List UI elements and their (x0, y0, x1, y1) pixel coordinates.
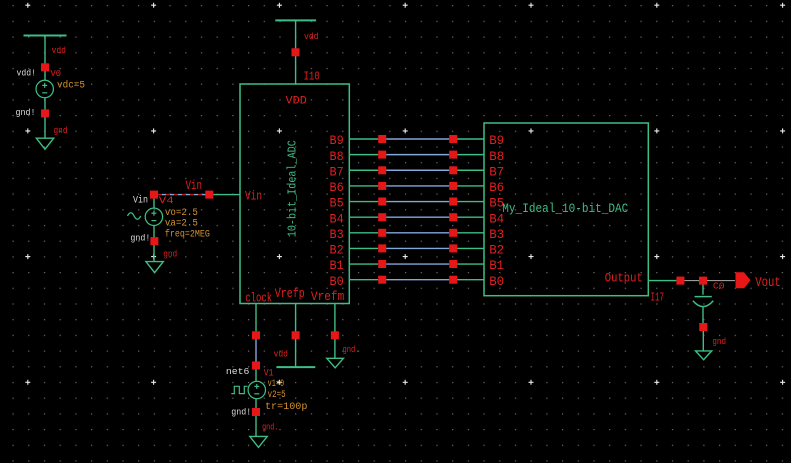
svg-text:v1=0: v1=0 (268, 379, 285, 390)
svg-text:10-bit_Ideal_ADC: 10-bit_Ideal_ADC (285, 140, 299, 237)
svg-text:B7: B7 (489, 164, 504, 179)
pin square V4 minus (150, 237, 158, 245)
sine symbol V4 (128, 213, 141, 220)
label vdd (Vrefp) (274, 348, 289, 359)
wire B6 DAC stub (457, 185, 484, 187)
vdd supply symbol (top-left rail) (24, 36, 67, 81)
pin label B3 (ADC) (330, 227, 344, 242)
svg-text:tr=100p: tr=100p (265, 402, 307, 413)
label Vout (755, 276, 781, 291)
label C0 (713, 281, 725, 292)
wire Vin to ADC (213, 194, 240, 196)
pin label B1 (DAC) (489, 258, 504, 273)
wire B7 ADC stub (349, 169, 378, 171)
svg-text:freq=2MEG: freq=2MEG (165, 228, 210, 240)
wire B8 DAC stub (457, 154, 484, 156)
pin square B6 right (449, 182, 457, 190)
svg-text:gnd!: gnd! (16, 107, 36, 118)
pin label B8 (DAC) (489, 149, 504, 164)
voltage source V1 (248, 370, 265, 399)
value vo=2.5 (165, 208, 198, 219)
svg-text:I17: I17 (651, 292, 665, 305)
svg-text:gnd: gnd (712, 336, 726, 347)
pin label Output (605, 271, 643, 286)
pin square B1 left (378, 260, 386, 268)
svg-text:va=2.5: va=2.5 (165, 218, 198, 229)
wire B0 (blue net) (386, 279, 449, 281)
pin square V0 minus (41, 109, 49, 117)
value vdc=5 (57, 79, 85, 91)
label V0 (51, 68, 62, 79)
value freq=2MEG (165, 228, 210, 240)
svg-text:B8: B8 (330, 149, 344, 164)
wire B0 DAC stub (457, 279, 484, 281)
svg-text:Vrefp: Vrefp (275, 286, 305, 301)
label gnd. (Vrefm) (343, 344, 360, 355)
pin square B4 right (449, 213, 457, 221)
wire V0 to gnd (44, 98, 46, 138)
ground symbol (V4) (146, 262, 163, 273)
svg-text:B4: B4 (330, 211, 344, 226)
pin label B0 (ADC) (330, 274, 344, 289)
svg-text:B8: B8 (489, 149, 504, 164)
svg-text:Vin: Vin (245, 188, 262, 203)
value v1=0 (268, 379, 285, 390)
label V1 (264, 368, 274, 380)
svg-text:B0: B0 (489, 274, 504, 289)
wire Output from DAC (648, 280, 676, 282)
op DAC I17 box (484, 123, 648, 296)
svg-text:B1: B1 (330, 258, 344, 273)
svg-text:B6: B6 (489, 180, 504, 195)
capacitor C0 (693, 285, 713, 323)
pin label Vrefm (311, 289, 345, 304)
wire V4 to gnd (153, 226, 155, 262)
wire clock stub (255, 304, 257, 332)
svg-text:B5: B5 (330, 196, 344, 211)
pin square Vrefp (292, 331, 300, 339)
pin square C0 top (699, 277, 707, 285)
svg-text:VDD: VDD (286, 96, 308, 108)
wire Output to Vout port (684, 280, 735, 282)
svg-text:vdc=5: vdc=5 (57, 79, 85, 91)
svg-text:B2: B2 (489, 243, 504, 258)
svg-text:gnd: gnd (54, 125, 68, 136)
label vdd! (17, 67, 37, 78)
pin label B7 (ADC) (330, 164, 344, 179)
grid major crosses (25, 3, 785, 385)
label gnd (net) (54, 125, 68, 136)
label gnd! (V1) (231, 407, 251, 418)
svg-text:V4: V4 (159, 195, 174, 207)
svg-text:B6: B6 (330, 180, 344, 195)
svg-text:vdd: vdd (52, 45, 67, 56)
wire B9 DAC stub (457, 138, 484, 140)
pin square B7 left (378, 166, 386, 174)
pulse symbol V1 (231, 386, 247, 393)
pin square B8 left (378, 151, 386, 159)
pin square B9 right (449, 135, 457, 143)
wire B1 (blue net) (386, 263, 449, 265)
svg-text:v2=5: v2=5 (268, 390, 286, 401)
pin square B2 right (449, 244, 457, 252)
wire V1 to gnd (255, 399, 257, 437)
pin label B3 (DAC) (489, 227, 504, 242)
pin label Vin (ADC) (245, 188, 262, 203)
wire B8 (blue net) (386, 154, 449, 156)
wire clock (blue net) (255, 339, 257, 361)
svg-text:vo=2.5: vo=2.5 (165, 208, 198, 219)
wire B6 (blue net) (386, 185, 449, 187)
label net6 (226, 366, 250, 377)
svg-text:B0: B0 (330, 274, 344, 289)
pin square B8 right (449, 151, 457, 159)
svg-text:B3: B3 (330, 227, 344, 242)
wire B4 ADC stub (349, 216, 378, 218)
label gnd! (16, 107, 36, 118)
pin label Vrefp (275, 286, 305, 301)
svg-text:vdd: vdd (304, 31, 319, 42)
label 10-bit_Ideal_ADC (285, 140, 299, 237)
svg-text:My_Ideal_10-bit_DAC: My_Ideal_10-bit_DAC (502, 202, 628, 216)
pin square B3 right (449, 229, 457, 237)
wire B5 DAC stub (457, 201, 484, 203)
pin label B6 (DAC) (489, 180, 504, 195)
wire C0 to gnd (702, 331, 704, 351)
pin square B7 right (449, 166, 457, 174)
vdd supply symbol (Vrefp, rotated) (276, 366, 315, 368)
svg-text:I10: I10 (304, 70, 320, 83)
pin square B4 left (378, 213, 386, 221)
wire B3 DAC stub (457, 232, 484, 234)
wire B1 ADC stub (349, 263, 378, 265)
label vdd (net) (52, 45, 67, 56)
svg-text:V0: V0 (51, 68, 62, 79)
junction node Output (676, 277, 684, 285)
wire B9 (blue net) (386, 138, 449, 140)
pin label B4 (ADC) (330, 211, 344, 226)
wire B1 DAC stub (457, 263, 484, 265)
svg-text:clock: clock (245, 290, 272, 305)
wire B3 ADC stub (349, 232, 378, 234)
svg-text:B9: B9 (330, 133, 344, 148)
pin square clock (252, 331, 260, 339)
ground symbol (V0) (36, 138, 53, 149)
wire B6 ADC stub (349, 185, 378, 187)
svg-text:V1: V1 (264, 368, 274, 380)
wire B2 ADC stub (349, 247, 378, 249)
port Vout (output pin) (736, 272, 751, 288)
pin square VDD of I10 (292, 48, 300, 56)
wire B7 (blue net) (386, 169, 449, 171)
pin label B1 (ADC) (330, 258, 344, 273)
pin square B5 right (449, 198, 457, 206)
svg-text:gnd.: gnd. (343, 344, 360, 355)
label I17 (651, 292, 665, 305)
wire B8 ADC stub (349, 154, 378, 156)
pin square V4 plus (150, 191, 158, 199)
svg-text:Output: Output (605, 271, 643, 286)
svg-text:gnd.: gnd. (262, 422, 278, 433)
svg-text:vdd: vdd (274, 348, 289, 359)
ground symbol (Vrefm) (327, 358, 344, 368)
vdd supply symbol (above ADC) (275, 20, 316, 84)
svg-text:vdd!: vdd! (17, 67, 37, 78)
label My_Ideal_10-bit_DAC (502, 202, 628, 216)
label Vin (net, white) (133, 195, 148, 207)
svg-text:Vout: Vout (755, 276, 781, 291)
label gnd! (V4) (130, 233, 150, 244)
wire B3 (blue net) (386, 232, 449, 234)
ground symbol (V1) (250, 436, 267, 447)
pin label B7 (DAC) (489, 164, 504, 179)
svg-text:B7: B7 (330, 164, 344, 179)
svg-text:Vin: Vin (186, 178, 203, 193)
pin label B2 (DAC) (489, 243, 504, 258)
value va=2.5 (165, 218, 198, 229)
svg-text:gnd: gnd (163, 248, 177, 259)
label gnd (C0) (712, 336, 726, 347)
svg-text:B3: B3 (489, 227, 504, 242)
pin square B0 right (449, 276, 457, 284)
wire B7 DAC stub (457, 169, 484, 171)
wire B4 (blue net) (386, 216, 449, 218)
pin label B2 (ADC) (330, 243, 344, 258)
wire Vrefm stub (334, 304, 336, 359)
pin square B9 left (378, 135, 386, 143)
label gnd. (V1) (262, 422, 278, 433)
svg-text:Vrefm: Vrefm (311, 289, 345, 304)
svg-text:C0: C0 (713, 281, 725, 292)
label Vin (port) (186, 178, 203, 193)
svg-text:Vin: Vin (133, 195, 148, 207)
pin square B1 right (449, 260, 457, 268)
pin label B5 (ADC) (330, 196, 344, 211)
svg-text:B9: B9 (489, 133, 504, 148)
wire B0 ADC stub (349, 279, 378, 281)
label V4 (159, 195, 174, 207)
pin label B5 (DAC) (489, 196, 504, 211)
wire B5 ADC stub (349, 201, 378, 203)
pin label B9 (DAC) (489, 133, 504, 148)
value tr=100p (265, 402, 307, 413)
pin label VDD (286, 96, 308, 108)
wire B9 ADC stub (349, 138, 378, 140)
label vdd (above ADC) (304, 31, 319, 42)
label I10 (304, 70, 320, 83)
svg-text:net6: net6 (226, 366, 250, 377)
pin square V0 plus (41, 63, 49, 71)
svg-text:gnd!: gnd! (231, 407, 251, 418)
svg-text:gnd!: gnd! (130, 233, 150, 244)
pin square B5 left (378, 198, 386, 206)
pin label clock (245, 290, 272, 305)
wire B2 (blue net) (386, 247, 449, 249)
pin square B6 left (378, 182, 386, 190)
wire Vin dashed (selected) (158, 194, 206, 196)
pin square Vrefm (331, 331, 339, 339)
pin label B4 (DAC) (489, 211, 504, 226)
voltage source V4 (145, 199, 162, 226)
pin square B0 left (378, 276, 386, 284)
ground symbol (C0) (696, 351, 712, 360)
junction node Vin (205, 191, 213, 199)
pin label B9 (ADC) (330, 133, 344, 148)
junction node net6 (252, 362, 260, 370)
value v2=5 (268, 390, 286, 401)
pin label B6 (ADC) (330, 180, 344, 195)
voltage source V0 (36, 80, 53, 97)
pin square B2 left (378, 244, 386, 252)
wire B2 DAC stub (457, 247, 484, 249)
svg-text:B1: B1 (489, 258, 504, 273)
pin square V1 minus (252, 408, 260, 416)
label gnd (V4) (163, 248, 177, 259)
svg-text:B2: B2 (330, 243, 344, 258)
pin label B8 (ADC) (330, 149, 344, 164)
op ADC I10 box (240, 84, 349, 304)
pin square B3 left (378, 229, 386, 237)
wire B4 DAC stub (457, 216, 484, 218)
wire Vrefp stub (295, 304, 297, 368)
pin square C0 bottom (699, 323, 707, 331)
wire B5 (blue net) (386, 201, 449, 203)
pin label B0 (DAC) (489, 274, 504, 289)
